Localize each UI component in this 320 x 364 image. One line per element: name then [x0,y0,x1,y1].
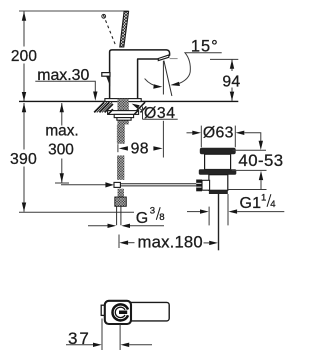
dimension 37 centerline extension [119,324,121,350]
drain lever knurled knob [196,180,202,192]
leader Ø34 box [143,107,178,120]
arc arrow left (to vertical line) [153,84,162,88]
dimension 390 up arrow [22,103,26,112]
lever tab wedge [106,76,110,86]
deck counter line [19,100,238,102]
drain locknut lip [199,169,237,174]
supply hose lower [117,156,124,180]
svg-text:max.180: max.180 [137,232,202,251]
dimension 40-53 bottom reference line [232,169,267,171]
dimension G1 1/4 right arrow and leader [228,209,237,213]
drain dark band [209,190,228,194]
svg-text:4: 4 [270,199,276,210]
dimension 40-53 down arrow [259,141,263,150]
wire spout outlet reference stub [170,58,178,60]
pop-up drain flange [200,148,236,154]
dimension 200 down arrow [22,92,26,101]
svg-text:8: 8 [159,212,164,223]
aerator outlet band [158,55,169,61]
dimension 94 top reference line [210,58,238,60]
dimension 40-53 top reference line [233,149,267,151]
dimension 390 down arrow [22,203,26,212]
lever motion phantom dashed line [103,15,116,46]
svg-text:G1: G1 [240,195,262,212]
leader max.30 underline and drop [35,81,95,92]
lever handle raised (hatched) [120,11,129,47]
G3/8 connection nut [115,197,127,206]
faucet body outline side view [110,50,170,99]
dimension 37 right arrow and leader [121,343,130,347]
label G3/8 [136,206,165,227]
dimension G3/8 right arrow and line [121,224,130,228]
dimension 94 up arrow [230,59,234,68]
leader 15deg underline and curve [174,53,222,85]
label G1 1/4 [240,192,277,212]
supply hose upper [117,125,125,144]
svg-text:G: G [136,210,149,227]
svg-text:max.: max. [45,123,78,140]
top view handle tab [101,305,106,315]
svg-text:3: 3 [150,206,155,217]
dimension 40-53 up arrow and line [259,171,263,180]
drain lower body [209,175,228,191]
stream tilted 15 deg line [164,61,172,96]
lever handle down tab [102,73,110,77]
G logo inner circle [115,307,125,317]
top view spout rectangle [128,302,169,321]
wire top extension line (lever top reference) [19,10,129,12]
svg-text:300: 300 [48,142,74,159]
hose below fitting [118,189,124,197]
wire 40-53 bottom anchor line [228,189,267,191]
hose fitting arrow [105,182,114,187]
dimension 98 left extension [117,144,119,152]
dimension max.180 left arrow [119,241,128,245]
dimension Ø63 extension lines [201,126,235,148]
leader Ø34 arrow [136,106,143,110]
wire hose-end reference line bottom [19,211,134,213]
svg-text:98: 98 [131,141,149,158]
G3/8 thread stub [117,206,121,225]
svg-text:200: 200 [11,48,37,65]
svg-text:390: 390 [10,151,37,168]
max300 leader to hose fitting [61,184,106,186]
svg-text:1: 1 [261,192,266,203]
dimension 390 vertical line [23,103,25,212]
mounting ring [117,118,131,121]
dimension 37 left leader and arrow [66,344,94,346]
top view body [105,301,131,324]
dimension 98 right extension (stream axis) [162,121,164,158]
mounting nut [114,114,133,117]
dimension 94 down arrow [230,92,234,101]
stream vertical line [162,61,164,95]
dimension 37 left extension [101,319,103,351]
svg-text:Ø63: Ø63 [203,125,234,142]
dimension Ø63 right arrow and jog to 40-53 [236,131,245,135]
dimension 94 vertical line [231,59,233,101]
dimension G1 1/4 extension lines [209,194,228,225]
dimension 98 right arrow [153,146,162,150]
faucet base plate [105,99,141,102]
dimension max.180 right arrow [209,241,218,245]
dimension max.180 left extension [118,235,120,249]
dimension G3/8 left line and arrow [88,225,108,227]
mounting washer [108,111,139,115]
drain tailpipe [218,194,220,250]
dimension 200 vertical line [23,11,25,101]
dimension 200 up arrow [22,11,26,20]
dimension Ø63 left leader and arrow [187,132,194,134]
dimension max.300 vertical line [61,103,63,183]
dimension 98 left arrow [119,146,128,150]
G logo crossbar [119,311,127,315]
svg-text:37: 37 [68,329,91,348]
svg-text:94: 94 [222,74,240,91]
deck hatch right [135,102,147,112]
arc arrow right (to tilted line) [170,82,180,86]
hose fitting body [114,182,120,187]
G logo outer ring [113,304,128,320]
pop-up rod horizontal [121,184,197,186]
swing arc left [145,79,160,87]
threaded shank [117,99,128,125]
wire max.300 bottom tick [55,182,69,184]
lever phantom knob circle [102,14,106,18]
svg-text:40-53: 40-53 [238,151,283,170]
dimension max.300 up arrow [60,103,64,112]
dimension G1 1/4 left arrow [187,211,201,213]
dimension max.300 down arrow [60,173,64,182]
drain upper body [205,154,231,169]
deck hatch left [94,102,113,112]
leader max.30 down arrow [93,92,97,101]
drain lever joint [202,180,210,190]
